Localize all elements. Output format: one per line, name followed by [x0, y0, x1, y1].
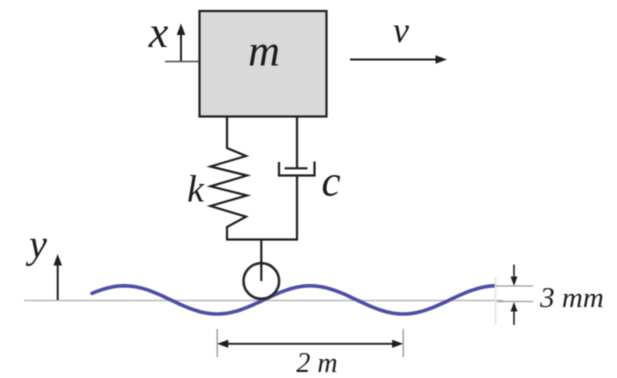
2m right tick	[402, 329, 404, 357]
svg-text:x: x	[148, 8, 169, 57]
spring k	[211, 117, 248, 240]
svg-text:v: v	[393, 10, 409, 50]
x reference tick	[165, 61, 199, 63]
faint guide line at wave end	[495, 277, 497, 325]
mass block m	[200, 11, 327, 117]
svg-text:m: m	[248, 27, 280, 76]
damper c : top rod	[296, 117, 298, 169]
2m double arrow	[223, 343, 398, 345]
damper bottom rod	[296, 176, 298, 240]
3mm upper arrow (down)	[513, 265, 515, 282]
svg-text:3 mm: 3 mm	[539, 282, 604, 314]
v velocity arrow	[350, 59, 440, 61]
3mm top extension line	[497, 285, 533, 287]
y displacement arrow	[57, 261, 59, 300]
road wave	[92, 286, 495, 314]
2m left tick	[216, 329, 218, 357]
wheel stem	[260, 240, 262, 282]
svg-text:y: y	[25, 222, 47, 267]
damper piston plate	[285, 167, 308, 169]
bottom bar	[226, 238, 298, 240]
svg-text:k: k	[187, 169, 205, 211]
x displacement arrow	[180, 31, 182, 62]
3mm lower arrow (up)	[513, 307, 515, 325]
baseline (ground reference line)	[24, 300, 503, 302]
svg-text:2 m: 2 m	[296, 348, 337, 378]
damper cup	[279, 162, 315, 176]
wheel circle	[243, 263, 279, 299]
svg-text:c: c	[321, 159, 340, 206]
3mm bottom extension line	[497, 301, 533, 303]
